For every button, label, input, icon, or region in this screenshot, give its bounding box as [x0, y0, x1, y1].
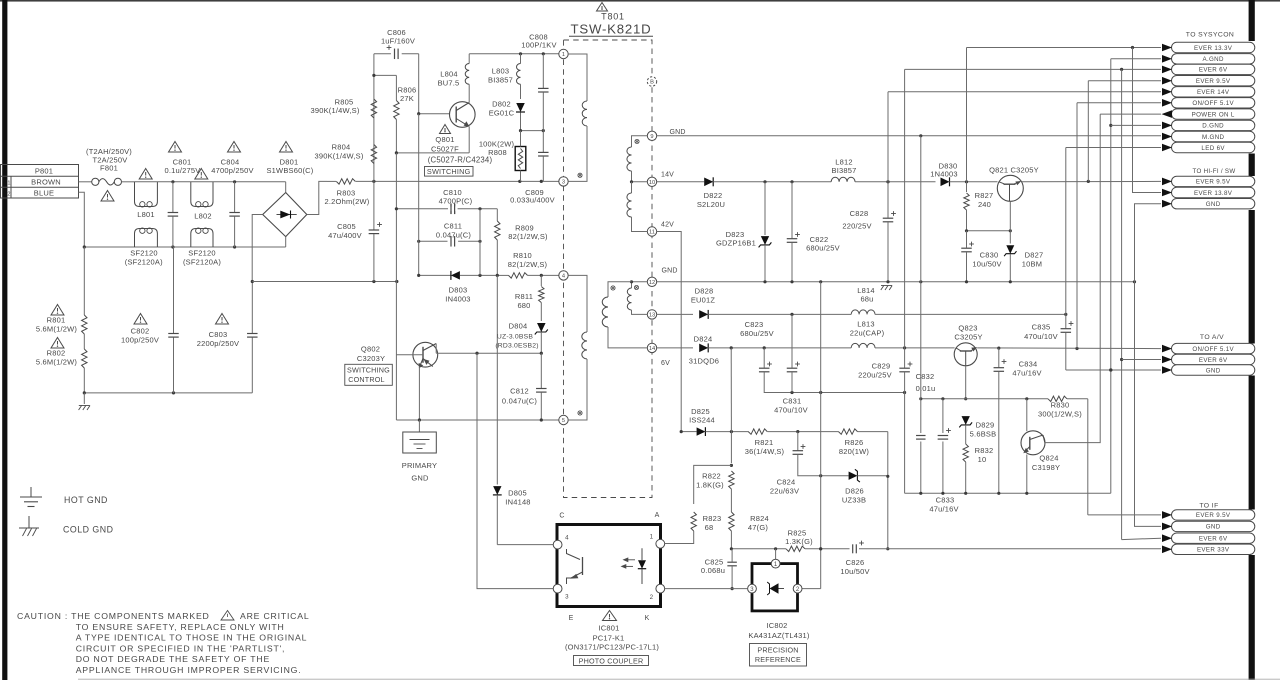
svg-text:GND: GND [670, 129, 686, 136]
svg-text:680u/25V: 680u/25V [740, 329, 774, 338]
svg-text:GDZP16B1: GDZP16B1 [716, 239, 756, 248]
page left edge black bar [2, 0, 7, 680]
wire C806 to Q801 base [417, 54, 450, 115]
svg-text:TO A/V: TO A/V [1200, 334, 1224, 341]
wire D824 node down to D825 line [730, 348, 732, 432]
svg-text:CONTROL: CONTROL [348, 375, 385, 384]
T801 terminal 4 [559, 271, 568, 280]
output arrow EVER 9.5V (IF) [1172, 510, 1255, 520]
capacitor C825 [701, 549, 737, 590]
svg-text:0.01u: 0.01u [916, 384, 936, 393]
wire ON/OFF5.1V row [1077, 103, 1161, 349]
svg-text:C830: C830 [980, 250, 999, 259]
svg-text:D823: D823 [726, 230, 745, 239]
T801 terminal 5 [559, 415, 568, 424]
resistor R804 [371, 145, 376, 164]
svg-text:S2L20U: S2L20U [697, 200, 725, 209]
wire Q802 collector line [436, 344, 543, 355]
svg-text:LED 6V: LED 6V [1201, 145, 1225, 152]
wire C810-C811 right link [479, 209, 481, 276]
label R804 [314, 143, 363, 161]
wire pin2 line to ground bus corner [798, 588, 821, 590]
svg-text:C832: C832 [916, 372, 935, 381]
wire R806 bottom to Q801 emitter [395, 151, 469, 154]
svg-text:L814: L814 [857, 286, 875, 295]
resistor R801 [82, 315, 87, 349]
phase mark primary [578, 173, 582, 177]
svg-text:SWITCHING: SWITCHING [427, 167, 471, 176]
svg-text:D805: D805 [508, 489, 527, 498]
svg-text:R826: R826 [845, 438, 864, 447]
svg-text:A.GND: A.GND [1202, 56, 1224, 63]
svg-text:1.3K(G): 1.3K(G) [785, 537, 813, 546]
svg-text:CAUTION : THE COMPONENTS MAR: CAUTION : THE COMPONENTS MARKED [17, 611, 210, 621]
capacitor C804 [211, 158, 253, 248]
wire neutral corner into bridge bottom [285, 237, 287, 247]
output arrow EVER 9.5V (SYSYCON) [1172, 76, 1255, 86]
svg-text:E: E [569, 615, 574, 622]
wire snubber top from R806-line to R809 [395, 207, 498, 210]
svg-text:11: 11 [649, 230, 655, 236]
svg-text:D828: D828 [695, 287, 714, 296]
svg-text:36(1/4W,S): 36(1/4W,S) [745, 447, 785, 456]
IC801 pin 1 [650, 534, 665, 549]
wire cold-ground bus vertical [819, 282, 822, 589]
svg-text:2200p/250V: 2200p/250V [197, 339, 239, 348]
svg-text:C3203Y: C3203Y [357, 354, 385, 363]
svg-text:UZ-3.0BSB: UZ-3.0BSB [497, 333, 533, 340]
IC801 pin 3 [553, 584, 569, 600]
svg-text:27K: 27K [400, 94, 414, 103]
safety triangle at L801 [139, 169, 152, 180]
wire EVER6V drop top [904, 69, 906, 348]
svg-text:C828: C828 [850, 209, 869, 218]
wire P801 pin2 (BLUE) to neutral rail [79, 192, 85, 247]
wire Q801 collector to L804 [468, 84, 470, 102]
wire R805 top tap to R806 [372, 74, 396, 77]
boxed label PRECISION REFERENCE [750, 644, 807, 667]
svg-text:BI3857: BI3857 [488, 76, 513, 85]
svg-text:10: 10 [978, 455, 987, 464]
svg-text:R808: R808 [488, 148, 507, 157]
svg-text:0.047u(C): 0.047u(C) [436, 230, 471, 239]
safety triangle at C801 [169, 142, 182, 153]
svg-text:240: 240 [978, 200, 991, 209]
label T801 with triangle [597, 3, 625, 22]
output arrow GND (A/V) [1172, 365, 1255, 375]
svg-text:82(1/2W,S): 82(1/2W,S) [508, 260, 548, 269]
output arrow EVER 6V (A/V) [1172, 354, 1255, 364]
T801 secondary winding pins 9-10 [627, 136, 647, 182]
svg-text:47u/16V: 47u/16V [1012, 369, 1041, 378]
svg-text:L804: L804 [440, 70, 458, 79]
wire IF EVER6V row [1122, 538, 1161, 539]
wire Q802 emitter down [419, 359, 424, 421]
wire L814 to LED6V node [875, 313, 1067, 316]
wire bus-left vertical with C806 top corner [373, 54, 375, 182]
svg-text:R804: R804 [332, 143, 351, 152]
output arrow A.GND (SYSYCON) [1172, 54, 1255, 64]
page top border line [0, 0, 1280, 2]
svg-text:0.068u: 0.068u [701, 566, 725, 575]
svg-text:82(1/2W,S): 82(1/2W,S) [508, 232, 548, 241]
label R806 [398, 86, 417, 104]
svg-text:(SF2120A): (SF2120A) [183, 258, 221, 267]
page right edge black bar segments [1249, 0, 1255, 41]
svg-text:ARE CRITICAL: ARE CRITICAL [240, 611, 309, 621]
IC802 pin 1 (top) [771, 549, 780, 568]
wire A/V EVER6V row [1122, 359, 1161, 361]
output arrow GND (IF) [1172, 521, 1255, 531]
capacitor C833 (electrolytic) [929, 399, 958, 514]
output arrow EVER 6V (SYSYCON) [1172, 64, 1255, 74]
svg-text:APPLIANCE THROUGH IMPROPER: APPLIANCE THROUGH IMPROPER SERVICING. [76, 665, 302, 675]
diode D822 [697, 177, 890, 209]
transistor Q824 (error amp) [1021, 431, 1045, 455]
resistor R811 [515, 275, 544, 321]
transformer T801 dashed boundary box [564, 40, 653, 498]
label Q824 [1032, 454, 1060, 472]
svg-text:PC17-K1: PC17-K1 [593, 633, 625, 642]
svg-text:4: 4 [565, 535, 569, 542]
svg-text:R827: R827 [975, 191, 994, 200]
svg-text:EVER 9.5V: EVER 9.5V [1196, 78, 1231, 85]
svg-text:C824: C824 [777, 477, 796, 486]
svg-text:L803: L803 [492, 67, 510, 76]
svg-text:CIRCUIT OR SPECIFIED IN TH: CIRCUIT OR SPECIFIED IN THE 'PARTLIST', [76, 643, 286, 653]
wire LED6V drop from arrow row to node [1065, 148, 1067, 315]
svg-text:M.GND: M.GND [1202, 134, 1225, 141]
T801 feedback winding (pins 4-5) [568, 275, 587, 420]
svg-text:C805: C805 [337, 222, 356, 231]
capacitor C808 [521, 33, 556, 131]
svg-text:UZ33B: UZ33B [842, 495, 866, 504]
diode D830 [930, 161, 997, 186]
wire Q824 base from control line [1026, 399, 1028, 431]
svg-text:3: 3 [562, 180, 565, 186]
svg-text:F801: F801 [100, 164, 118, 173]
svg-text:2: 2 [650, 594, 654, 601]
wire EVER33V line left portion [730, 547, 786, 550]
svg-text:TO HI-FI / SW: TO HI-FI / SW [1193, 168, 1236, 175]
svg-text:A TYPE IDENTICAL TO THOSE: A TYPE IDENTICAL TO THOSE IN THE ORIGINA… [76, 633, 308, 643]
resistor R803 in main bus [327, 179, 559, 184]
output arrow EVER 6V (IF) [1172, 533, 1255, 543]
COLD GND symbol [19, 516, 39, 536]
svg-text:R811: R811 [515, 292, 533, 301]
resistor R827 [964, 182, 994, 231]
zener diode D823 [716, 182, 771, 282]
svg-text:IN4003: IN4003 [445, 295, 470, 304]
wire top rail from L804 to T801 pin1 [469, 52, 559, 55]
wire L813 to Q823 [875, 346, 955, 349]
svg-text:D826: D826 [845, 486, 864, 495]
fuse F801 [92, 178, 122, 185]
wire Q821 emitter to EVER9.5V row [1022, 180, 1162, 183]
T801 terminal 9 [647, 131, 656, 140]
svg-text:0.047u(C): 0.047u(C) [502, 397, 537, 406]
svg-text:D803: D803 [449, 286, 468, 295]
label Q801 [428, 135, 493, 165]
phase mark sec4 [611, 286, 615, 290]
svg-text:Q824: Q824 [1039, 454, 1058, 463]
svg-text:470u/10V: 470u/10V [1024, 332, 1058, 341]
wire R810 junction down to D805 [496, 275, 498, 484]
svg-text:(ON3171/PC123/PC-17L1): (ON3171/PC123/PC-17L1) [565, 643, 659, 652]
svg-text:R824: R824 [750, 514, 769, 523]
svg-text:EVER 9.5V: EVER 9.5V [1196, 179, 1231, 186]
svg-text:C3205Y: C3205Y [954, 333, 982, 342]
output arrow D.GND (SYSYCON) [1172, 120, 1255, 130]
svg-text:1: 1 [774, 562, 778, 568]
svg-text:POWER ON L: POWER ON L [1192, 111, 1235, 118]
output arrow EVER 13.8V (HI-FI) [1172, 187, 1255, 197]
T801 terminal 10 [647, 177, 656, 186]
svg-text:PRECISION: PRECISION [757, 645, 798, 654]
svg-text:EVER 6V: EVER 6V [1199, 536, 1228, 543]
safety triangle at L802 [195, 169, 208, 180]
safety triangle at C802 [134, 314, 147, 325]
svg-text:C826: C826 [846, 558, 865, 567]
T801 terminal 12 [647, 277, 656, 286]
resistor R810 [496, 251, 559, 278]
svg-text:22u(CAP): 22u(CAP) [850, 328, 885, 337]
wire R823 top link [694, 465, 732, 504]
wire 6V rail pin14 to D824 [657, 347, 693, 349]
IC802 body [752, 564, 798, 611]
svg-text:A: A [655, 512, 660, 519]
boxed label PHOTO COUPLER [574, 656, 649, 666]
wire Q821 base down to D827 [1009, 201, 1011, 231]
label SF2120 for L801 [125, 249, 163, 267]
svg-text:47(G): 47(G) [748, 523, 768, 532]
svg-text:EVER 6V: EVER 6V [1199, 357, 1228, 364]
svg-text:6V: 6V [661, 360, 670, 367]
svg-text:R810: R810 [513, 251, 532, 260]
wire A/V GND row [1066, 368, 1161, 371]
wire D826 node down to EVER33V line [886, 476, 889, 550]
wire negative rail to switching area [252, 280, 398, 283]
wire R830 right end down to IF EVER9.5V [1087, 399, 1089, 515]
capacitor C811 [417, 222, 482, 247]
capacitor C828 (electrolytic) [842, 182, 896, 282]
wire HI-FI GND link [1135, 204, 1162, 527]
svg-text:(SF2120A): (SF2120A) [125, 258, 163, 267]
output arrow M.GND (SYSYCON) [1172, 131, 1255, 141]
svg-text:D824: D824 [694, 334, 713, 343]
wire Q824 emitter to local gnd [1026, 455, 1028, 494]
wire C829 bottom to local gnd rail [904, 393, 906, 494]
wire M.GND drop to C832 [920, 136, 922, 399]
svg-text:10u/50V: 10u/50V [840, 567, 869, 576]
svg-text:R821: R821 [755, 438, 774, 447]
output arrow EVER 13.3V (SYSYCON) [1172, 42, 1255, 52]
svg-text:680: 680 [517, 301, 530, 310]
secondary earth mark [881, 286, 884, 291]
svg-text:EG01C: EG01C [489, 109, 515, 118]
wire Q824 collector to POWER-ON-L drop [1045, 114, 1100, 443]
inductor L813 [850, 319, 885, 348]
wire R827 to Q821 base link [965, 229, 1012, 232]
resistor R826 [839, 429, 888, 456]
wire bridge positive output up to main bus [307, 181, 327, 214]
wire local secondary ground rail [905, 492, 1111, 495]
label SF2120 for L802 [183, 249, 221, 267]
svg-text:680u/25V: 680u/25V [806, 244, 840, 253]
capacitor C812 [502, 353, 547, 420]
svg-text:1: 1 [650, 534, 654, 541]
wire R826 right end down [887, 432, 889, 477]
diode D803 [417, 271, 497, 304]
wire A.GND row [1111, 58, 1161, 60]
inductor L814 [851, 286, 875, 315]
svg-text:100p/250V: 100p/250V [121, 336, 159, 345]
IC802 internal reference zener [767, 568, 784, 595]
svg-text:L812: L812 [835, 158, 853, 167]
svg-text:GND: GND [1206, 367, 1221, 374]
diode D828 [691, 287, 851, 319]
resistor R824 [729, 489, 769, 549]
svg-text:100P/1KV: 100P/1KV [521, 40, 556, 49]
wire AC line corner into bridge top [285, 182, 287, 193]
wire EVER9.5V row link [1088, 81, 1161, 182]
boxed label SWITCHING [425, 167, 474, 177]
svg-text:EVER 9.5V: EVER 9.5V [1196, 512, 1231, 519]
label F801 [86, 147, 132, 173]
capacitor C802 [121, 247, 179, 393]
svg-text:GND: GND [662, 267, 678, 274]
wire EVER13.3V drop to 14V node [966, 48, 968, 182]
label R801 [36, 316, 77, 334]
svg-text:4700p/250V: 4700p/250V [211, 166, 253, 175]
resistor R805 [371, 99, 376, 118]
svg-text:R822: R822 [702, 471, 721, 480]
svg-text:C831: C831 [783, 396, 802, 405]
zener diode D826 [816, 469, 889, 504]
wire neutral rail [83, 245, 286, 248]
svg-text:220u/25V: 220u/25V [858, 371, 892, 380]
output arrow EVER 9.5V (HI-FI) [1172, 176, 1255, 186]
wire EVER13.8V link [1133, 48, 1162, 193]
line-filter choke L801 [135, 182, 158, 247]
safety triangle at Q801 [440, 125, 451, 134]
wire Q802 base from R806-line [396, 354, 423, 356]
svg-text:2: 2 [7, 191, 10, 197]
inductor L804 [438, 54, 470, 88]
wire D.GND row [1111, 124, 1161, 126]
resistor R822 [696, 432, 734, 490]
svg-text:68u: 68u [860, 295, 873, 304]
label TSW-K821D (title) [569, 22, 653, 37]
T801 terminal 1 [559, 49, 568, 58]
label D801 [266, 158, 313, 175]
IC802 pin 3 (left) [748, 584, 757, 593]
T801 secondary winding pins 12-14 [602, 282, 647, 348]
phase mark sec3 [634, 285, 638, 289]
T801 terminal 3 [559, 177, 568, 186]
svg-text:1: 1 [7, 181, 10, 187]
svg-text:IC801: IC801 [598, 624, 619, 633]
connector P801 box [1, 165, 79, 199]
svg-text:14V: 14V [661, 172, 674, 179]
wire EVER13.3V row [967, 46, 1162, 49]
zener diode D827 [1004, 231, 1043, 282]
svg-text:KA431AZ(TL431): KA431AZ(TL431) [748, 631, 809, 640]
svg-text:TO ENSURE SAFETY, REPLACE: TO ENSURE SAFETY, REPLACE ONLY WITH [76, 622, 285, 632]
wire GND rail pin9 to M.GND arrow [657, 134, 1161, 137]
wire 14V rail pin10 to D822 [657, 181, 705, 183]
diode D805 [493, 486, 531, 544]
capacitor C803 [197, 280, 258, 393]
diode D824 [689, 334, 851, 365]
diode D802 [489, 100, 525, 131]
wire D802 cathode to C808 line [519, 129, 545, 132]
capacitor C801 [165, 158, 201, 248]
output arrow ON/OFF 5.1V (SYSYCON) [1172, 98, 1255, 108]
svg-text:IC802: IC802 [766, 621, 787, 630]
svg-text:P801: P801 [35, 166, 53, 175]
T801 terminal 13 [647, 310, 656, 319]
wire IC801 pin2 to IC802 pin3 [665, 588, 747, 590]
svg-text:1.8K(G): 1.8K(G) [696, 480, 724, 489]
svg-text:EVER 33V: EVER 33V [1197, 547, 1230, 554]
svg-text:EVER 13.8V: EVER 13.8V [1194, 190, 1233, 197]
capacitor C826 series (electrolytic) [840, 541, 1161, 576]
resistor R806 [394, 75, 399, 152]
svg-text:BLUE: BLUE [34, 188, 54, 197]
svg-text:R802: R802 [47, 349, 66, 358]
svg-text:SWITCHING: SWITCHING [347, 365, 390, 374]
svg-text:S1WBS60(C): S1WBS60(C) [266, 166, 313, 175]
inductor L803 [488, 54, 520, 99]
T801 primary winding (pins 1-3) [568, 54, 587, 181]
wire LED6V row [1066, 147, 1161, 149]
svg-text:42V: 42V [661, 221, 674, 228]
capacitor C810 in snubber top wire [439, 188, 473, 214]
primary earth stub below R802 [79, 393, 90, 410]
svg-text:2.2Ohm(2W): 2.2Ohm(2W) [325, 197, 370, 206]
label R802 [36, 349, 77, 367]
transistor Q821 (9.5V regulator) [997, 175, 1023, 201]
diode D825 [680, 407, 749, 436]
phase mark feedback [578, 411, 582, 415]
output arrow POWER ON L (SYSYCON) [1172, 109, 1255, 119]
wire 42V from pin11 down to D825 line [657, 232, 682, 432]
capacitor C805 (electrolytic) [328, 181, 382, 281]
svg-text:REFERENCE: REFERENCE [755, 655, 801, 664]
svg-text:HOT GND: HOT GND [64, 495, 108, 505]
svg-text:Q821 C3205Y: Q821 C3205Y [989, 165, 1039, 174]
svg-text:(RD3.0ESB2): (RD3.0ESB2) [495, 342, 538, 349]
resistor R821 [730, 429, 839, 456]
wire EVER6V vertical [1120, 69, 1123, 539]
primary GND symbol [402, 420, 437, 482]
svg-text:T801: T801 [601, 12, 625, 22]
zener diode D804 [495, 322, 547, 354]
svg-text:Q802: Q802 [361, 345, 380, 354]
svg-text:12: 12 [649, 280, 655, 286]
wire EVER14V row [888, 91, 1161, 93]
bridge rectifier D801 [263, 193, 307, 237]
svg-text:5: 5 [562, 418, 565, 424]
output arrow ON/OFF 5.1V (A/V) [1172, 343, 1255, 353]
svg-text:R830: R830 [1051, 400, 1070, 409]
svg-text:R823: R823 [703, 514, 722, 523]
svg-text:10: 10 [649, 180, 655, 186]
output arrow GND (HI-FI) [1172, 199, 1255, 209]
svg-text:9: 9 [650, 134, 653, 140]
svg-text:C: C [559, 513, 564, 520]
